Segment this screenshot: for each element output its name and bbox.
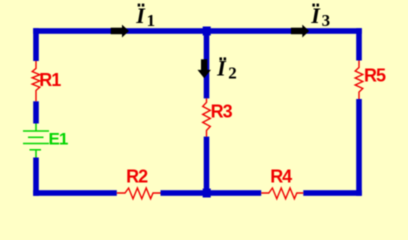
wire left upper segment xyxy=(33,28,39,61)
current arrow I1 xyxy=(111,25,129,38)
resistor R2 xyxy=(117,188,161,199)
svg-text:R2: R2 xyxy=(126,166,148,186)
svg-text:R3: R3 xyxy=(211,101,233,121)
battery E1 xyxy=(23,124,49,158)
svg-text:I: I xyxy=(135,3,146,28)
resistor R3 xyxy=(203,98,211,136)
junction node top xyxy=(203,27,211,36)
wire middle upper segment xyxy=(204,31,210,98)
wire left mid segment xyxy=(33,101,39,123)
wire bottom right segment xyxy=(303,190,362,196)
resistor R4 xyxy=(261,188,303,199)
svg-text:3: 3 xyxy=(322,11,331,30)
wire right lower segment xyxy=(356,99,362,196)
resistor R5 xyxy=(355,61,363,100)
resistor R1 xyxy=(32,61,40,101)
label I1 xyxy=(135,3,155,30)
current arrow I2 xyxy=(198,59,211,78)
label I3 xyxy=(310,3,330,30)
svg-text:R4: R4 xyxy=(270,167,292,187)
svg-text:E1: E1 xyxy=(49,130,68,149)
junction node bottom xyxy=(203,189,211,198)
svg-text:R1: R1 xyxy=(39,70,61,90)
svg-text:1: 1 xyxy=(147,11,156,30)
wire right upper segment xyxy=(356,28,362,60)
current arrow I3 xyxy=(291,25,309,38)
wire bottom middle segment xyxy=(161,190,262,196)
svg-text:R5: R5 xyxy=(364,65,386,85)
wire middle lower segment xyxy=(204,137,210,193)
svg-text:2: 2 xyxy=(228,63,237,82)
wire bottom left segment xyxy=(33,190,117,196)
wire left lower segment xyxy=(33,158,39,196)
wire top horizontal xyxy=(33,28,362,34)
svg-text:I: I xyxy=(310,3,321,28)
label I2 xyxy=(216,55,237,82)
